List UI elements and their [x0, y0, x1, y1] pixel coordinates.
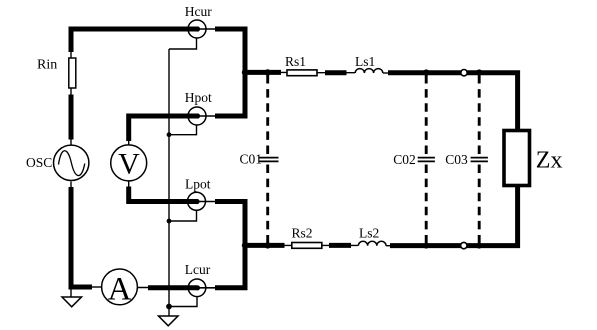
- svg-text:Hpot: Hpot: [185, 90, 212, 105]
- svg-text:C03: C03: [445, 152, 468, 167]
- wire Lcur shield drop to bus: [169, 297, 197, 307]
- wire voltmeter bottom to Lpot: [129, 182, 197, 202]
- wire Rs2 to Ls2: [322, 244, 358, 246]
- node L junction: [242, 242, 248, 248]
- resistor Rin: [69, 58, 76, 88]
- resistor Rs2: [292, 243, 322, 249]
- capacitor C01: [259, 75, 279, 243]
- ground at OSC low corner: [62, 289, 82, 307]
- connector Hpot: [188, 107, 215, 125]
- svg-text:Rin: Rin: [37, 58, 57, 73]
- node bus-Lpot junction: [167, 219, 172, 224]
- svg-text:C02: C02: [393, 152, 416, 167]
- svg-text:Hcur: Hcur: [185, 4, 212, 19]
- wire ammeter to Lcur: [138, 287, 197, 289]
- ammeter A: [102, 269, 138, 308]
- node C03 top tap: [476, 69, 482, 75]
- node C01 bottom tap: [265, 242, 271, 248]
- svg-text:Ls2: Ls2: [359, 225, 379, 240]
- svg-text:Zx: Zx: [536, 147, 563, 173]
- svg-text:V: V: [118, 148, 140, 181]
- connector Hcur: [188, 20, 215, 38]
- wire left loop top corner: OSC branch up and across to Hcur: [71, 29, 197, 60]
- capacitor C03: [471, 75, 488, 243]
- inductor Ls2: [358, 241, 386, 245]
- wire Hpot shield drop to bus: [169, 125, 197, 135]
- wire Lpot shield drop to bus: [169, 210, 197, 221]
- svg-text:C01: C01: [240, 152, 263, 167]
- node H junction: [242, 69, 248, 75]
- wire guard bus vertical: [168, 49, 170, 307]
- wire between Rin and OSC: [70, 88, 72, 145]
- node terminal circle top: [461, 70, 467, 76]
- wire L junction to Rs2: [243, 244, 293, 246]
- node terminal circle bottom: [461, 242, 467, 248]
- inductor Ls1: [355, 69, 383, 73]
- wire voltmeter top to Hpot: [129, 116, 197, 145]
- svg-text:Rs2: Rs2: [292, 225, 313, 240]
- voltmeter V: [111, 145, 147, 181]
- svg-text:Rs1: Rs1: [285, 54, 306, 69]
- wire Hcur-Hpot junction vertical: [215, 29, 245, 116]
- wire Ls2 to right corner and up to Zx bottom: [386, 187, 518, 248]
- wire Hcur shield drop to bus: [169, 38, 197, 49]
- node C03 bottom tap: [476, 243, 482, 249]
- impedance Zx (DUT): [504, 131, 530, 186]
- wire OSC bottom down to corner and right toward ammeter: [69, 182, 102, 290]
- resistor Rs1: [287, 70, 317, 76]
- svg-text:Lcur: Lcur: [185, 262, 211, 277]
- node C01 top tap: [265, 69, 271, 75]
- wire H junction to Rs1: [243, 71, 289, 73]
- node C02 bottom tap: [423, 243, 429, 249]
- ground at guard bus bottom: [159, 307, 179, 326]
- oscillator OSC: [53, 145, 88, 180]
- svg-text:OSC: OSC: [26, 155, 52, 170]
- svg-text:A: A: [108, 272, 132, 308]
- connector Lcur: [188, 279, 215, 297]
- wire Rs1 to Ls1: [317, 72, 355, 74]
- node bus-Lcur junction: [166, 304, 172, 310]
- svg-text:Ls1: Ls1: [355, 54, 375, 69]
- wire Lpot-Lcur junction vertical: [215, 202, 245, 288]
- connector Lpot: [188, 192, 216, 210]
- node C02 top tap: [423, 69, 429, 75]
- node bus-Hpot junction: [167, 132, 172, 137]
- svg-text:Lpot: Lpot: [185, 176, 211, 191]
- wire Ls1 to right corner and down to Zx top: [383, 70, 518, 129]
- capacitor C02: [418, 75, 435, 243]
